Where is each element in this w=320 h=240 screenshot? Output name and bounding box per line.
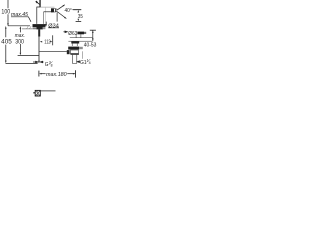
max180 left tick	[38, 71, 40, 77]
base plate	[33, 24, 46, 27]
waste union nut light	[79, 47, 83, 49]
waste side line	[81, 51, 83, 59]
112 extension line	[52, 35, 54, 45]
top tick 35 dim	[73, 9, 81, 11]
rod coupling block	[67, 50, 70, 54]
dimension 405 arrows	[5, 26, 7, 63]
svg-text:max.45: max.45	[11, 12, 29, 18]
svg-text:G1: G1	[80, 60, 87, 66]
dimension max.300 arrows	[20, 26, 22, 55]
threaded shank	[38, 29, 40, 36]
mounting nut light right	[43, 27, 46, 29]
body front faint edge	[45, 8, 47, 24]
waste union nut	[68, 47, 79, 50]
waste seal nut	[71, 42, 79, 44]
405 bottom reference line	[6, 62, 38, 64]
diameter 34 leader	[45, 22, 47, 25]
35 dim lower arrow	[78, 19, 80, 22]
max180 right arrow	[73, 73, 75, 75]
svg-text:Ø34: Ø34	[48, 23, 59, 29]
basin bottom line	[68, 40, 92, 42]
svg-text:Ø63: Ø63	[68, 31, 77, 37]
spout top line	[41, 6, 55, 8]
diameter63 leader	[63, 31, 67, 33]
40-53 up arrow	[92, 30, 94, 33]
hatched box	[35, 90, 40, 96]
G3/8 left arrow	[33, 61, 38, 63]
diameter 34 underline	[48, 27, 59, 29]
max180 dim line right	[67, 73, 75, 75]
aerator housing	[54, 9, 56, 12]
lever knob	[36, 1, 38, 3]
max180 right tick	[75, 70, 77, 77]
label max.45 underline leader	[11, 17, 31, 22]
dimension max.300 line	[19, 29, 21, 53]
dimension 100 arrow	[7, 23, 9, 26]
svg-text:max.180: max.180	[46, 72, 68, 78]
bottom tick 35 dim	[76, 21, 82, 23]
35 dim upper arrow	[78, 10, 80, 13]
mounting nut light left	[33, 27, 37, 29]
waste body box	[70, 50, 78, 54]
tailpipe end	[72, 62, 76, 64]
mounting nut dark	[36, 27, 42, 30]
svg-text:300: 300	[15, 38, 24, 45]
svg-text:112: 112	[44, 40, 50, 46]
40 deg lower arrow	[64, 17, 67, 19]
deck top line	[8, 25, 30, 27]
svg-text:405: 405	[1, 39, 12, 46]
waste flange	[77, 32, 84, 35]
max180 dim line left	[41, 73, 46, 75]
basin top line	[70, 37, 93, 39]
diameter 34 leader arrow	[45, 24, 47, 27]
hatched box left dash	[33, 92, 35, 94]
dimension 100 line	[7, 0, 9, 26]
tailpipe	[72, 55, 76, 64]
pop-up rod	[40, 50, 67, 52]
body right edge	[43, 12, 45, 24]
max.300 reference line	[18, 55, 39, 57]
40 deg upper ray	[57, 5, 64, 10]
svg-text:40-53: 40-53	[84, 42, 97, 48]
112 dim left arrow	[40, 41, 42, 43]
svg-text:40°: 40°	[65, 8, 72, 14]
dimension 405 line	[5, 28, 7, 61]
aerator dark block	[51, 8, 54, 12]
spout bottom line	[44, 11, 52, 13]
waste tube mid	[72, 44, 77, 47]
40-53 down arrow	[92, 38, 94, 41]
40 deg lower ray	[57, 12, 66, 19]
deck hatch	[27, 26, 32, 29]
G1 1/4 leader arrow	[77, 61, 80, 63]
faucet body	[37, 7, 41, 24]
40 deg leader to tick	[72, 9, 81, 11]
lever arm	[37, 2, 40, 4]
40-53 dim line	[92, 30, 94, 41]
waste body bottom bar	[70, 54, 79, 55]
aerator tip	[56, 9, 57, 12]
supply pipe	[38, 37, 40, 62]
deck bottom line	[22, 28, 32, 30]
svg-text:100: 100	[1, 8, 10, 15]
svg-text:4: 4	[89, 61, 91, 65]
svg-text:8: 8	[51, 63, 53, 67]
svg-text:35: 35	[78, 14, 83, 20]
lever shaft	[39, 0, 40, 7]
G3/8 right arrow	[40, 61, 43, 63]
hatched box diagonals	[35, 91, 40, 96]
supply pipe end arrow	[38, 61, 40, 64]
hatched box top line	[40, 90, 55, 92]
40 deg upper arrow	[63, 5, 65, 7]
112 dim right arrow	[50, 41, 52, 43]
40-53 top tick	[90, 29, 96, 31]
waste tube upper	[76, 34, 81, 37]
aerator extension line	[56, 12, 58, 21]
max180 left arrow	[39, 73, 41, 75]
